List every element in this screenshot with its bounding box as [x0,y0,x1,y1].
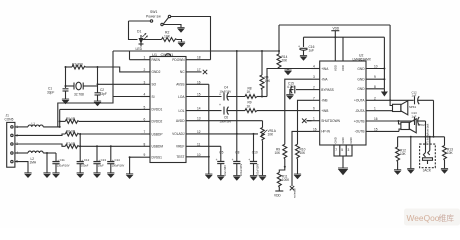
pin -OUTA [355,107,393,113]
capacitor C13 [412,111,426,125]
node C13a tap [96,145,98,147]
node bus A [433,136,435,138]
pin 17 NC [180,68,207,74]
svg-text:VDD: VDD [274,194,281,198]
pin 11 VREF [176,142,221,148]
wire VDD rail [304,36,385,38]
svg-text:220uF/16V: 220uF/16V [57,164,70,168]
wire C10 feed [253,134,255,162]
svg-text:GND: GND [349,137,353,143]
svg-text:13: 13 [197,117,201,121]
wire R9 to R11 [279,167,285,173]
wire left branch [65,67,67,88]
svg-text:SO: SO [152,83,157,87]
svg-text:VDD: VDD [334,65,338,71]
ground [205,174,212,179]
svg-text:GND: GND [341,137,345,143]
crystal X1 [66,82,98,96]
node rail L1 [59,126,61,128]
ground [286,95,293,100]
capacitor C5 [216,150,227,176]
pin 8 USBDM [141,142,164,148]
speaker SPK2 [401,119,425,133]
svg-text:CON5: CON5 [5,118,14,122]
pin 12 VOLADJ [172,130,258,136]
resistor RA 1K [245,87,267,99]
svg-text:100uF/16V: 100uF/16V [112,164,125,168]
node VOLADJ C8 [236,133,238,135]
svg-text:USBDP: USBDP [152,132,163,136]
wire R2 to ground [177,40,182,43]
capacitor C11 [52,153,69,173]
svg-text:VREF: VREF [176,145,185,149]
pin GND right 3 [357,85,384,91]
shutdown X mark [302,119,312,124]
svg-text:DVDD2: DVDD2 [152,120,163,124]
svg-text:10: 10 [374,65,378,69]
svg-text:Power sw: Power sw [146,15,161,19]
svg-text:17: 17 [197,68,201,72]
power VDD symbol [331,27,340,38]
resistor R14 [277,54,288,70]
svg-text:18: 18 [197,56,201,60]
ground [294,174,301,179]
svg-text:2: 2 [313,86,315,90]
svg-text:GND: GND [357,87,365,91]
node gnd stub1 [383,68,385,70]
watermark WeeQoo [404,209,460,226]
pin 3 SO [141,80,157,86]
power VDD bottom [274,191,283,198]
svg-text:SW1: SW1 [150,10,157,14]
pin SHUTDOWN [307,117,341,123]
resistor R6 [65,130,140,136]
wire C16 feed [303,37,305,47]
capacitor C6 [219,103,245,123]
pin 9 DVSS1 [141,153,163,159]
capacitor C12 [412,91,434,105]
resistor R4 [260,75,271,97]
resistor R2 10K [162,31,177,42]
resistor R7 [65,142,140,148]
wire SI to box edge [113,96,141,98]
svg-text:To headphone jack: To headphone jack [428,123,430,143]
node loop left [65,66,67,68]
wire C13a feed [96,146,98,161]
svg-text:GND: GND [357,67,365,71]
svg-text:1uF: 1uF [309,49,315,53]
svg-text:12: 12 [197,130,201,134]
resistor R5 [60,117,141,123]
capacitor C14 [107,158,124,173]
svg-text:+INB: +INB [321,109,328,113]
pin -INA [312,75,329,81]
wire J1 pin5 to ground [15,162,28,173]
svg-text:BYPASS: BYPASS [321,88,334,92]
svg-text:C6: C6 [224,116,228,120]
wire jack feed B [425,121,427,153]
node bus R12 [410,136,412,138]
wire L2 to C11 [43,152,56,154]
svg-text:GND2: GND2 [152,70,161,74]
capacitor C4 [219,86,245,101]
node R7 wire cap tap [79,145,81,147]
svg-text:USBDM: USBDM [152,145,164,149]
svg-text:8: 8 [144,142,146,146]
ground [233,176,240,181]
node TEST AVSS [208,156,210,158]
node VDD stub [334,36,336,38]
svg-text:DVSS1: DVSS1 [152,156,163,160]
node rail 279 [278,50,280,52]
svg-text:10K: 10K [275,151,282,155]
ground [94,101,101,106]
wire switch contact to ground [163,25,181,28]
svg-text:33pF: 33pF [100,92,107,96]
pin GND right 2 [357,75,384,81]
ground [62,99,69,104]
svg-text:7: 7 [144,130,146,134]
ground [338,168,348,175]
ground [250,176,257,181]
ground [126,174,133,179]
pin GND right 1 [357,65,384,71]
svg-text:维库: 维库 [439,213,455,223]
svg-text:4: 4 [313,65,315,69]
pin 6 DVDD2 [141,117,163,123]
svg-text:+: + [219,103,221,107]
wire -OUTB into speaker2 [399,129,401,131]
LED D1 [136,30,148,52]
ground [43,173,50,178]
node crystal top [97,66,99,68]
svg-text:20K: 20K [282,59,289,63]
wire J1 pin2 to R6 [15,134,65,135]
pin BYPASS [312,86,334,92]
resistor R9 [275,144,287,167]
wire tap to ground [46,153,48,173]
wire VDD top line [279,24,390,26]
wire switch common to PDOWN [171,17,211,60]
svg-text:LED: LED [136,47,143,51]
svg-text:SHUTDOWN: SHUTDOWN [321,119,340,123]
svg-text:-INB: -INB [321,99,327,103]
pin +INA [312,65,330,71]
wire R4 drop [261,51,263,75]
svg-text:1: 1 [374,107,376,111]
svg-text:7: 7 [313,96,315,100]
amplifier U2 LM4863 box [320,54,372,146]
wire bottom GND pins [334,145,352,168]
wire to U1 pin2 [98,67,141,72]
node R6 wire cap tap [79,133,81,135]
resistor RB 1K [245,101,312,113]
svg-text:AVSS: AVSS [176,83,184,87]
svg-text:3: 3 [313,75,315,79]
ground [259,176,266,181]
svg-text:100uF: 100uF [81,164,89,168]
svg-text:5: 5 [341,148,343,152]
pin +OUTA [354,96,414,102]
wire VDD rail drop to gnd arrow [383,37,385,89]
svg-text:LOA: LOA [178,95,185,99]
inductor L2 [28,151,43,164]
svg-text:VDD: VDD [341,65,345,71]
svg-text:+OUTA: +OUTA [354,99,365,103]
wire LOA up to +INA [267,69,312,97]
wire J1 pin1 to L1 [15,126,28,128]
svg-text:10uF/16V: 10uF/16V [220,89,232,93]
svg-text:5: 5 [144,105,146,109]
svg-text:NC: NC [180,70,185,74]
pin HP-IN [312,127,331,133]
svg-text:32.768: 32.768 [74,93,84,97]
svg-text:-INA: -INA [321,78,328,82]
capacitor C1 33pF [47,87,69,100]
wire DVDD1 [60,108,141,110]
svg-text:10K: 10K [300,151,307,155]
wire HP-IN drop [292,131,312,186]
wire J1 pin3 to R7 [15,144,65,146]
svg-text:100K: 100K [282,178,290,182]
svg-text:SI: SI [152,95,155,99]
node speaker2 branch [398,120,400,122]
pin 10 TEST [176,153,208,159]
svg-text:VOLADJ: VOLADJ [172,132,185,136]
svg-text:10K: 10K [400,152,407,156]
svg-text:4: 4 [144,93,146,97]
wire rail vertical [59,109,61,127]
svg-text:7: 7 [335,148,337,152]
svg-text:PDOWN: PDOWN [172,58,185,62]
resistor R3 [66,63,98,70]
wire speaker2 top [399,121,401,124]
ground [93,173,100,178]
wire switch pole [129,20,151,22]
speaker SPK1 [393,101,417,115]
ground [217,176,224,181]
wire VDD pin stubs [334,37,336,61]
svg-text:TEST: TEST [176,155,184,159]
resistor R11 [277,173,290,192]
wire top rail [113,50,279,52]
svg-text:HP-IN: HP-IN [321,130,330,134]
pin -INB [312,96,328,102]
wire -OUTA into speaker [392,110,394,112]
pin 15 LOA [178,93,221,99]
svg-text:C4: C4 [224,86,228,90]
capacitor C10 [248,150,259,176]
wire VREF elbow [220,146,222,161]
svg-text:10K: 10K [447,151,454,155]
ground [394,170,401,175]
svg-text:D1: D1 [137,30,141,34]
node bus B [425,136,427,138]
svg-text:2: 2 [144,68,146,72]
node bus tip [429,136,431,138]
svg-text:9: 9 [374,75,376,79]
wire pin9 to ground [130,157,141,174]
svg-text:C10: C10 [252,150,258,154]
svg-text:-OUTB: -OUTB [355,130,365,134]
ground [284,70,291,75]
svg-text:6: 6 [313,107,315,111]
node R4 LOA [261,96,263,98]
pin 2 GND2 [141,68,161,74]
svg-text:3: 3 [348,148,350,152]
wire J1 pin4 to L2 [15,152,28,154]
svg-text:no install: no install [294,188,297,198]
pin +OUTB [354,117,414,123]
node gnd stub2 [383,78,385,80]
node rail 262 [261,50,263,52]
svg-text:+OUTB: +OUTB [354,119,365,123]
svg-text:DVDD1: DVDD1 [152,108,163,112]
resistor R12 [396,137,407,170]
node rail 237 [236,50,238,52]
svg-text:9: 9 [144,153,146,157]
capacitor C12a [77,134,90,173]
svg-text:VDD: VDD [333,27,340,31]
wire jack feed A [433,100,435,137]
svg-text:GND: GND [357,78,365,82]
wire AVSS drop [208,84,210,174]
node crystal right [97,83,99,85]
svg-text:-OUTA: -OUTA [355,109,366,113]
capacitor C15 bypass [287,82,312,95]
pin 4 SI [141,93,155,99]
svg-text:10K: 10K [265,79,272,83]
svg-text:WeeQoo: WeeQoo [407,213,440,223]
wire L1 to rail [43,126,60,128]
svg-text:10: 10 [197,153,201,157]
wire right branch [97,67,99,93]
signal ground arrow [381,89,388,97]
svg-text:100uF/16V: 100uF/16V [257,163,260,176]
svg-text:16: 16 [197,80,201,84]
resistor R10 [296,144,307,174]
svg-text:+: + [219,92,221,96]
wire box edge feed [58,51,113,127]
wire C14 feed [110,146,112,161]
node L2 gnd tap [46,152,48,154]
node crystal left [65,85,67,87]
svg-text:11: 11 [197,142,201,146]
connector J1 [5,114,19,168]
svg-text:6: 6 [144,117,146,121]
svg-text:C8: C8 [235,150,239,154]
svg-text:1: 1 [313,117,315,121]
wire -INB feedback [298,100,312,144]
pin 1 PAEN [130,51,161,62]
ground [107,173,114,178]
svg-text:10uF/16V: 10uF/16V [224,165,227,176]
capacitor C2 33pF [95,88,107,101]
node rail R5 [59,120,61,122]
pin +INB [312,107,329,113]
ground [300,56,307,61]
pin 7 USBDP [141,130,163,136]
ground [177,28,184,33]
svg-text:15: 15 [374,127,378,131]
svg-text:GND: GND [334,137,338,143]
no-connect X mark [290,186,297,198]
node OUTA crossing [389,99,391,101]
pin 16 AVSS [176,80,209,86]
pin -OUTB [355,127,399,133]
pin 5 DVDD1 [141,105,163,111]
svg-text:33pF: 33pF [47,91,54,95]
node pin9 [129,156,131,158]
wire -INA feedback [285,79,312,144]
wire to U1 pin3 [98,83,141,85]
wire jack bus [398,136,445,138]
pin 14 LOL [178,107,221,113]
svg-text:PAEN: PAEN [152,58,161,62]
svg-text:16: 16 [374,117,378,121]
svg-text:10uF: 10uF [98,164,104,168]
wire DVDD drop [236,51,238,162]
inductor L1 [28,122,43,127]
svg-text:10K: 10K [268,133,275,137]
svg-text:1: 1 [144,56,146,60]
svg-text:100uF/16V: 100uF/16V [240,163,243,176]
capacitor C16 [298,45,315,56]
wire LED to R2 [141,39,162,41]
svg-text:15: 15 [197,93,201,97]
svg-text:C5: C5 [219,150,223,154]
svg-text:2: 2 [374,96,376,100]
svg-text:10uF/16V: 10uF/16V [220,119,232,123]
pin 18 PDOWN [172,56,210,62]
node R9 bottom [284,166,286,168]
ground [178,42,185,47]
svg-text:+INA: +INA [321,67,329,71]
wire jack sleeve ground [410,137,412,169]
wire R14 feed [278,25,280,54]
headphone jack J2 [420,144,436,172]
node VOLADJ C10 [253,133,255,135]
ground [52,173,59,178]
svg-text:1K: 1K [247,104,252,108]
svg-text:1MH: 1MH [30,160,37,164]
ground [77,173,84,178]
svg-text:16: 16 [313,127,317,131]
capacitor C13a [93,158,106,173]
svg-text:8: 8 [374,85,376,89]
switch SW1 [146,10,171,26]
op-amp U1 CM601 box [150,52,186,163]
svg-text:14: 14 [197,107,201,111]
node C14 tap [110,145,112,147]
svg-text:AVDD: AVDD [176,119,185,123]
ground [24,173,31,178]
wire VDD pin stub 2 [342,37,344,61]
resistor R13 [443,137,454,169]
svg-text:JACK: JACK [423,169,432,173]
potentiometer VR1A [261,121,277,176]
capacitor C8 [232,150,243,176]
svg-text:3: 3 [144,80,146,84]
ground [441,169,448,174]
wire jack tip branch [429,137,431,151]
svg-text:SPK1: SPK1 [409,105,417,109]
ground [407,169,414,174]
svg-text:1K: 1K [247,90,252,94]
svg-text:LOL: LOL [178,109,184,113]
wire top feed drop [390,25,392,106]
pin 13 AVDD [176,117,263,123]
